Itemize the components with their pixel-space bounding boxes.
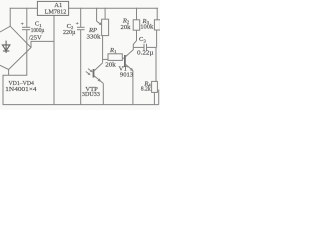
svg-text:LM7812: LM7812 (45, 8, 67, 15)
svg-text:100k: 100k (140, 24, 154, 31)
bridge rectifier VD1-VD4 diamond (0, 26, 31, 69)
potentiometer RP (97, 8, 109, 36)
svg-text:330k: 330k (87, 33, 102, 40)
wire C3 node down to R4 (155, 47, 157, 81)
svg-text:+: + (76, 21, 79, 27)
wire C1 bottom to ground loop (3, 30, 27, 105)
wire R4 to ground rail (153, 92, 155, 104)
resistor R4 (152, 81, 158, 92)
phototransistor VTP 3DU33 (94, 63, 104, 105)
svg-text:0.22µ: 0.22µ (137, 50, 154, 57)
wire bridge dc minus elbow (31, 41, 54, 47)
transistor VT 9013 (122, 30, 136, 104)
wire top rail right (69, 7, 158, 9)
wire bridge bottom stub (8, 70, 10, 76)
resistor R2 (133, 8, 140, 30)
light arrow 1 into VTP (86, 72, 91, 76)
resistor R1 (103, 54, 123, 61)
wire RP bottom node to VTP collector (102, 36, 104, 63)
svg-text:20k: 20k (105, 61, 116, 68)
svg-text:3DU33: 3DU33 (82, 91, 101, 98)
wire right chain R3 to C3 node (156, 30, 158, 47)
capacitor C1 (22, 8, 30, 30)
wire left drop to bridge (9, 8, 11, 26)
wire top rail left (10, 7, 38, 9)
op-amp regulator box A1 LM7812 (37, 1, 68, 15)
svg-text:9013: 9013 (120, 72, 134, 79)
light arrow 2 into VTP (88, 69, 93, 73)
svg-text:1000µ: 1000µ (31, 27, 45, 34)
svg-text:+: + (21, 21, 24, 27)
capacitor C2 (77, 8, 85, 105)
diode VD inside bridge (2, 41, 9, 53)
svg-text:/25V: /25V (29, 34, 42, 41)
wire bottom right corner (158, 90, 160, 105)
svg-text:8.2k: 8.2k (141, 86, 152, 93)
wire regulator ground pin (53, 15, 55, 104)
capacitor C3 (133, 44, 156, 51)
resistor R3 (154, 8, 160, 30)
svg-text:220µ: 220µ (63, 29, 76, 36)
svg-text:20k: 20k (121, 24, 132, 31)
ground rail bottom (3, 104, 159, 106)
svg-text:1N4001×4: 1N4001×4 (5, 86, 37, 93)
